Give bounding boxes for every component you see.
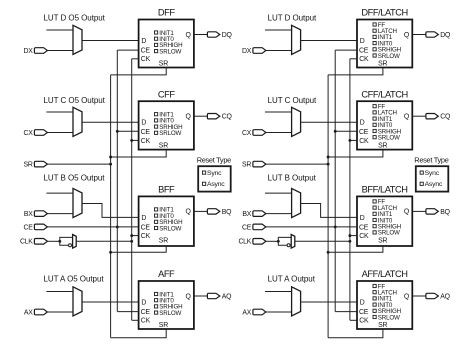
wire Q to CQ pad (right) — [412, 115, 426, 117]
wire CE bus to CFF CE pin (right) — [335, 130, 357, 132]
wire CLK inverted path — [60, 241, 69, 245]
svg-text:Q: Q — [404, 209, 410, 216]
wire CLK bus to DFF CK pin (right) — [350, 58, 357, 60]
wire mux C output to D pin (right) — [301, 121, 357, 123]
junction CLK/BFF stub (right) — [348, 234, 351, 237]
svg-text:Sync: Sync — [207, 170, 222, 177]
flip-flop CFF — [139, 101, 194, 149]
wire Q to DQ pad — [194, 34, 208, 36]
mux A (O5/AX select) (right) — [292, 287, 301, 316]
wire AFF SR pin drop — [111, 329, 167, 338]
svg-text:CE: CE — [242, 224, 252, 231]
svg-text:DQ: DQ — [222, 32, 233, 39]
svg-text:LUT A O5 Output: LUT A O5 Output — [44, 274, 105, 283]
svg-text:LUT C Output: LUT C Output — [268, 96, 317, 105]
pad BQ output — [207, 209, 232, 216]
wire DX to mux (right) — [266, 50, 292, 52]
svg-text:CX: CX — [24, 130, 34, 137]
wire CE bus to CFF CE pin — [117, 130, 138, 132]
svg-text:AQ: AQ — [440, 293, 450, 300]
title DFF/LATCH — [361, 8, 407, 18]
pad CQ output — [207, 114, 232, 121]
svg-text:LUT B O5 Output: LUT B O5 Output — [44, 174, 106, 183]
wire CLK pad to inverter-mux junction (right) — [266, 240, 278, 242]
title CFF — [158, 89, 175, 99]
svg-text:CK: CK — [141, 56, 151, 63]
pad CLK input — [20, 239, 47, 246]
mux C (O5/CX select) — [73, 107, 82, 136]
junction CE bus crossing (right) — [334, 225, 337, 228]
svg-text:CE: CE — [141, 129, 151, 136]
net label LUT B O5 Output — [44, 174, 106, 183]
svg-text:SR: SR — [159, 142, 168, 149]
svg-text:CK: CK — [141, 138, 151, 145]
flip-flop CFF/LATCH — [357, 101, 412, 149]
wire CE bus to AFF CE pin (right) — [335, 311, 357, 313]
wire BX to mux — [47, 213, 73, 215]
wire Q to CQ pad — [194, 115, 208, 117]
title BFF — [158, 185, 175, 195]
svg-text:LUT D O5 Output: LUT D O5 Output — [44, 14, 106, 23]
wire mux C output to D pin — [82, 121, 139, 123]
svg-text:CLK: CLK — [20, 239, 33, 246]
svg-text:CK: CK — [141, 233, 151, 240]
svg-text:SRLOW: SRLOW — [159, 225, 181, 232]
wire AFF SR pin drop (right) — [328, 329, 383, 338]
pad CX input (right) — [242, 130, 266, 137]
junction CLK feed/bus — [130, 240, 133, 243]
svg-text:Async: Async — [425, 181, 443, 188]
svg-text:D: D — [360, 299, 365, 306]
svg-text:SRLOW: SRLOW — [378, 134, 400, 141]
wire LUT C O5 output to mux — [46, 111, 73, 113]
wire mux B output to BFF D pin — [82, 204, 139, 218]
svg-text:BQ: BQ — [440, 209, 450, 216]
wire LUT D output to mux (right) — [265, 29, 292, 31]
svg-text:CLK: CLK — [238, 239, 251, 246]
pad CX input — [24, 130, 48, 137]
wire CX to mux (right) — [266, 132, 292, 134]
junction CE/CFF stub — [116, 130, 119, 133]
junction CLK/CFF stub — [130, 139, 133, 142]
svg-text:BX: BX — [24, 211, 33, 218]
wire BFF SR pin drop — [111, 246, 167, 252]
flip-flop BFF/LATCH — [357, 196, 412, 246]
wire Q to AQ pad (right) — [412, 295, 426, 297]
svg-text:LUT A Output: LUT A Output — [268, 274, 316, 283]
svg-text:CQ: CQ — [440, 114, 451, 121]
flip-flop DFF/LATCH — [357, 20, 412, 68]
svg-text:CK: CK — [359, 318, 369, 325]
svg-text:SR: SR — [378, 238, 387, 245]
wire DX to mux — [47, 50, 73, 52]
junction BFF SR/bus (right) — [327, 251, 330, 254]
net label LUT D O5 Output — [44, 14, 106, 23]
wire mux A output to D pin (right) — [301, 301, 357, 303]
reset type selector (right) — [414, 155, 448, 191]
inverter bubble CLK — [69, 244, 72, 247]
wire CE bus to AFF CE pin — [117, 311, 138, 313]
svg-text:SR: SR — [378, 322, 387, 329]
wire BFF SR pin drop (right) — [328, 246, 383, 252]
svg-text:SR: SR — [159, 61, 168, 68]
mux C (O5/CX select) (right) — [292, 107, 301, 136]
wire DFF SR pin drop (right) — [328, 68, 383, 75]
wire LUT A O5 output to mux — [46, 291, 73, 293]
pad DX input (right) — [242, 48, 266, 55]
wire CLK vertical bus (right) — [349, 59, 351, 321]
svg-text:DX: DX — [24, 48, 34, 55]
pad AQ output (right) — [426, 293, 451, 300]
net label LUT D Output (right) — [268, 14, 317, 23]
wire CX to mux — [47, 132, 73, 134]
wire LUT B output to mux (right) — [265, 192, 292, 194]
svg-text:AFF: AFF — [158, 269, 175, 279]
wire CLK pad to inverter-mux junction — [47, 240, 59, 242]
svg-text:D: D — [141, 215, 146, 222]
wire LUT A output to mux (right) — [265, 291, 292, 293]
wire LUT D O5 output to mux — [46, 29, 73, 31]
wire CLK bus to BFF CK pin — [132, 235, 139, 237]
svg-text:Q: Q — [186, 32, 192, 39]
wire Q to BQ pad (right) — [412, 210, 426, 212]
net label LUT A O5 Output — [44, 274, 105, 283]
svg-text:AX: AX — [24, 309, 33, 316]
svg-text:D: D — [141, 38, 146, 45]
wire LUT C output to mux (right) — [265, 111, 292, 113]
svg-text:Q: Q — [186, 209, 192, 216]
svg-text:Q: Q — [404, 293, 410, 300]
svg-text:D: D — [360, 215, 365, 222]
title CFF/LATCH — [361, 89, 407, 99]
svg-text:AFF/LATCH: AFF/LATCH — [362, 269, 408, 279]
junction SR pad/bus — [109, 163, 112, 166]
reset type selector — [197, 155, 231, 191]
mux CLK polarity — [73, 235, 77, 249]
svg-text:DX: DX — [242, 48, 252, 55]
inverter bubble CLK (right) — [287, 244, 290, 247]
svg-text:D: D — [360, 120, 365, 127]
wire CFF SR pin drop (right) — [328, 150, 383, 157]
flip-flop AFF — [139, 281, 194, 329]
wire Q to AQ pad — [194, 295, 208, 297]
junction SR pad/bus (right) — [327, 163, 330, 166]
title AFF — [158, 269, 175, 279]
svg-text:SRLOW: SRLOW — [159, 310, 181, 317]
wire CE vertical bus — [116, 50, 118, 312]
mux CLK polarity (right) — [291, 235, 295, 249]
svg-text:SR: SR — [378, 61, 387, 68]
mux B (O5/BX select) — [73, 188, 82, 217]
svg-text:BX: BX — [242, 211, 251, 218]
svg-text:CQ: CQ — [222, 114, 233, 121]
wire SR pad to SR bus (right) — [266, 163, 328, 165]
net label LUT C Output (right) — [268, 96, 317, 105]
svg-text:D: D — [141, 299, 146, 306]
pad AX input (right) — [242, 309, 266, 316]
wire mux D output to D pin (right) — [301, 40, 357, 42]
mux B (O5/BX select) (right) — [292, 188, 301, 217]
svg-text:BQ: BQ — [222, 209, 232, 216]
svg-text:SR: SR — [159, 238, 168, 245]
wire CLK vertical bus — [131, 59, 133, 321]
svg-text:SR: SR — [24, 162, 33, 169]
svg-text:AX: AX — [242, 309, 251, 316]
svg-text:SRLOW: SRLOW — [378, 53, 400, 60]
svg-text:SR: SR — [242, 162, 251, 169]
wire SR vertical bus — [110, 75, 112, 338]
svg-text:Sync: Sync — [425, 170, 440, 177]
svg-text:CE: CE — [24, 224, 34, 231]
pad AQ output — [207, 293, 232, 300]
pad BQ output (right) — [426, 209, 451, 216]
svg-text:Async: Async — [207, 181, 225, 188]
wire CLK mux output to CLK bus — [76, 240, 132, 242]
svg-text:D: D — [360, 38, 365, 45]
mux D (O5/DX select) — [73, 25, 82, 54]
title AFF/LATCH — [362, 269, 408, 279]
svg-text:CFF: CFF — [158, 89, 175, 99]
svg-text:D: D — [141, 120, 146, 127]
svg-text:CX: CX — [242, 130, 252, 137]
svg-text:Reset Type: Reset Type — [197, 155, 231, 164]
svg-text:DFF/LATCH: DFF/LATCH — [361, 8, 407, 18]
wire AX to mux — [47, 311, 73, 313]
junction CLK/CFF stub (right) — [348, 139, 351, 142]
svg-text:CE: CE — [359, 129, 369, 136]
pad CLK input (right) — [238, 239, 265, 246]
junction CFF SR/bus (right) — [327, 156, 330, 159]
svg-text:SRLOW: SRLOW — [159, 130, 181, 137]
wire CLK bus to BFF CK pin (right) — [350, 235, 357, 237]
net label LUT C O5 Output — [44, 96, 106, 105]
svg-text:CK: CK — [359, 233, 369, 240]
svg-text:SRLOW: SRLOW — [378, 314, 400, 321]
junction CLK/BFF stub — [130, 234, 133, 237]
junction BFF SR/bus — [109, 251, 112, 254]
svg-text:Q: Q — [404, 32, 410, 39]
pad DQ output — [207, 32, 232, 39]
wire CLK bus to AFF CK pin (right) — [350, 319, 357, 321]
net label LUT B Output (right) — [268, 174, 317, 183]
mux D (O5/DX select) (right) — [292, 25, 301, 54]
pad DQ output (right) — [426, 32, 451, 39]
wire Q to DQ pad (right) — [412, 34, 426, 36]
svg-text:LUT C O5 Output: LUT C O5 Output — [44, 96, 106, 105]
wire CE vertical bus (right) — [334, 50, 336, 312]
svg-text:SR: SR — [159, 322, 168, 329]
wire CLK mux output to CLK bus (right) — [295, 240, 350, 242]
wire DFF SR pin drop — [111, 68, 167, 75]
wire CFF SR pin drop — [111, 150, 167, 157]
wire CLK bus to DFF CK pin — [132, 58, 139, 60]
wire CE pad to BFF CE pin (right) — [266, 226, 357, 228]
wire CE bus to DFF CE pin (right) — [335, 49, 357, 51]
title DFF — [158, 8, 175, 18]
pad BX input — [24, 211, 48, 218]
wire CE bus to DFF CE pin — [117, 49, 138, 51]
wire CE pad to BFF CE pin — [47, 226, 138, 228]
svg-text:LUT B Output: LUT B Output — [268, 174, 317, 183]
pad CE input (right) — [242, 224, 266, 231]
pad CQ output (right) — [426, 114, 451, 121]
net label LUT A Output (right) — [268, 274, 316, 283]
svg-text:CK: CK — [359, 56, 369, 63]
junction CFF SR/bus — [109, 156, 112, 159]
wire mux D output to D pin — [82, 40, 139, 42]
svg-text:CE: CE — [141, 309, 151, 316]
svg-text:SRLOW: SRLOW — [159, 48, 181, 55]
pad DX input — [24, 48, 48, 55]
wire CLK inverted path (right) — [278, 241, 287, 245]
pad CE input — [24, 224, 48, 231]
svg-text:AQ: AQ — [222, 293, 232, 300]
wire CLK bus to AFF CK pin — [132, 319, 139, 321]
wire Q to BQ pad — [194, 210, 208, 212]
wire BX to mux (right) — [266, 213, 292, 215]
wire AX to mux (right) — [266, 311, 292, 313]
svg-text:LUT D Output: LUT D Output — [268, 14, 317, 23]
svg-text:Q: Q — [404, 114, 410, 121]
svg-text:BFF: BFF — [158, 185, 175, 195]
pad SR input — [24, 161, 48, 168]
svg-text:CK: CK — [141, 318, 151, 325]
junction CE/CFF stub (right) — [334, 130, 337, 133]
svg-text:CE: CE — [359, 48, 369, 55]
svg-text:DFF: DFF — [158, 8, 175, 18]
svg-text:Reset Type: Reset Type — [414, 155, 448, 164]
svg-text:Q: Q — [186, 293, 192, 300]
svg-text:CK: CK — [359, 138, 369, 145]
title BFF/LATCH — [362, 185, 408, 195]
svg-text:SRLOW: SRLOW — [378, 230, 400, 237]
wire CLK bus to CFF CK pin — [132, 139, 139, 141]
svg-text:CFF/LATCH: CFF/LATCH — [361, 89, 407, 99]
svg-text:CE: CE — [359, 309, 369, 316]
pad BX input (right) — [242, 211, 266, 218]
junction CLK split (right) — [277, 240, 280, 243]
svg-text:BFF/LATCH: BFF/LATCH — [362, 185, 408, 195]
flip-flop BFF — [139, 196, 194, 246]
flip-flop AFF/LATCH — [357, 281, 412, 329]
pad SR input (right) — [242, 161, 266, 168]
svg-text:CE: CE — [141, 48, 151, 55]
wire mux B output to BFF D pin (right) — [301, 204, 357, 218]
mux A (O5/AX select) — [73, 287, 82, 316]
wire mux A output to D pin — [82, 301, 139, 303]
pad AX input — [24, 309, 48, 316]
svg-text:SR: SR — [378, 142, 387, 149]
svg-text:DQ: DQ — [440, 32, 451, 39]
wire SR pad to SR bus — [47, 163, 110, 165]
wire LUT B O5 output to mux — [46, 192, 73, 194]
junction CLK split — [58, 240, 61, 243]
wire SR vertical bus (right) — [327, 75, 329, 338]
wire CLK true path — [60, 237, 73, 241]
svg-text:CE: CE — [141, 224, 151, 231]
svg-text:Q: Q — [186, 114, 192, 121]
svg-text:CE: CE — [359, 224, 369, 231]
wire CLK true path (right) — [278, 237, 291, 241]
junction CE bus crossing — [116, 225, 119, 228]
wire CLK bus to CFF CK pin (right) — [350, 139, 357, 141]
junction CLK feed/bus (right) — [348, 240, 351, 243]
flip-flop DFF — [139, 20, 194, 68]
